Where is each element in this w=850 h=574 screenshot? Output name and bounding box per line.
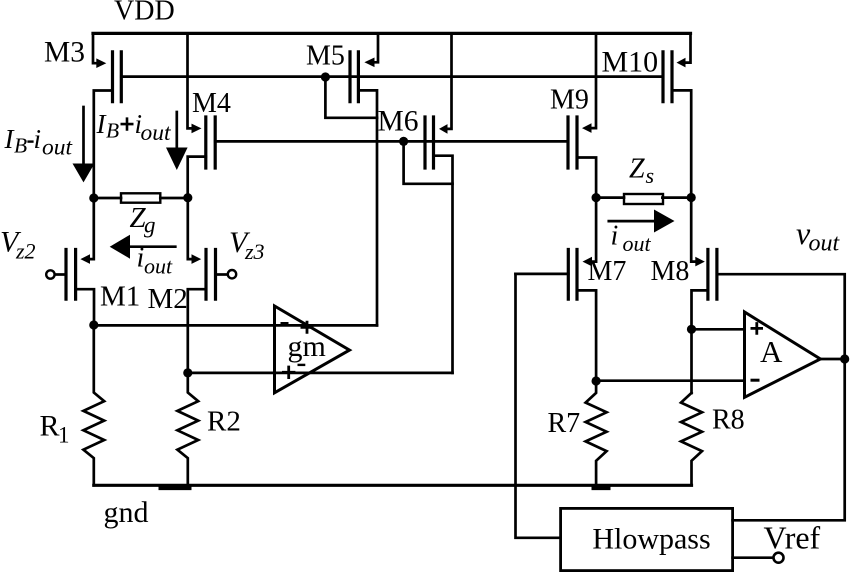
svg-text:gnd: gnd	[104, 496, 149, 529]
svg-text:z2: z2	[15, 239, 36, 264]
svg-text:out: out	[141, 120, 172, 146]
svg-text:M9: M9	[550, 85, 589, 116]
svg-text:M10: M10	[602, 46, 659, 79]
svg-text:out: out	[144, 253, 173, 278]
svg-text:B: B	[14, 134, 27, 158]
svg-text:B: B	[106, 119, 119, 143]
svg-text:R7: R7	[548, 408, 581, 439]
svg-text:A: A	[760, 334, 783, 369]
svg-text:M7: M7	[588, 256, 627, 287]
svg-text:g: g	[144, 213, 156, 238]
svg-text:out: out	[809, 231, 841, 257]
svg-text:out: out	[42, 135, 73, 161]
svg-text:VDD: VDD	[114, 0, 175, 27]
svg-text:R: R	[40, 410, 60, 443]
svg-text:Z: Z	[629, 154, 645, 185]
svg-text:M5: M5	[306, 41, 345, 72]
svg-text:R2: R2	[207, 406, 241, 438]
svg-text:i: i	[34, 124, 42, 154]
svg-text:M4: M4	[192, 88, 231, 119]
svg-text:i: i	[611, 221, 619, 252]
svg-text:1: 1	[58, 423, 70, 448]
svg-text:out: out	[623, 231, 652, 256]
svg-text:M8: M8	[651, 256, 690, 287]
svg-text:M2: M2	[148, 283, 188, 315]
svg-text:gm: gm	[288, 330, 326, 363]
svg-text:M6: M6	[378, 106, 419, 138]
svg-text:s: s	[646, 163, 655, 188]
svg-text:M3: M3	[44, 37, 85, 69]
svg-text:Hlowpass: Hlowpass	[592, 523, 710, 556]
svg-text:M1: M1	[100, 281, 140, 313]
svg-text:Vref: Vref	[764, 520, 821, 556]
svg-text:z3: z3	[244, 239, 265, 264]
svg-text:R8: R8	[712, 405, 745, 436]
